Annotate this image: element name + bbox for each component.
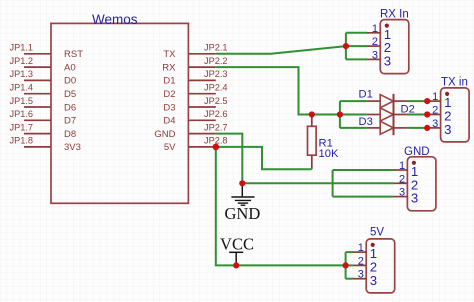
svg-text:TX: TX [163, 49, 176, 60]
svg-text:D4: D4 [163, 116, 175, 127]
svg-text:1: 1 [432, 91, 438, 103]
wire net GND horizontal to connector [242, 182, 394, 184]
ground symbol GND [225, 183, 261, 223]
junction 5V bus [343, 262, 349, 268]
svg-text:JP2.4: JP2.4 [204, 83, 228, 93]
svg-text:3: 3 [399, 187, 405, 199]
IC U1 Wemos body [51, 23, 188, 203]
svg-text:1: 1 [372, 23, 378, 35]
diode D2 [367, 104, 415, 122]
svg-text:5V: 5V [370, 227, 384, 239]
svg-text:D7: D7 [64, 116, 76, 127]
junction RX In bus [343, 43, 349, 49]
supply symbol VCC [220, 235, 254, 266]
connector JP5 GND [394, 146, 436, 211]
svg-text:D1: D1 [359, 89, 373, 101]
pin JP1.2 [10, 56, 76, 74]
svg-text:D2: D2 [163, 89, 175, 100]
svg-text:GND: GND [154, 129, 175, 140]
wire GND bus vertical [332, 170, 334, 197]
svg-text:JP2.7: JP2.7 [204, 122, 228, 132]
wire 5V bus vertical [345, 252, 347, 279]
wire net 5V: JP2.8 down to VCC row [216, 147, 346, 266]
svg-text:10K: 10K [319, 148, 339, 160]
wire D3 cathode to TX in pin3 [407, 127, 427, 129]
wire diode bus vertical [339, 101, 341, 128]
svg-text:3: 3 [384, 54, 391, 69]
wire RX In pin1 branch [346, 32, 367, 34]
wire 5V pin3 branch [346, 278, 353, 280]
svg-text:JP1.8: JP1.8 [10, 136, 34, 146]
svg-text:JP2.2: JP2.2 [204, 56, 228, 66]
svg-text:3: 3 [358, 269, 364, 281]
label Wemos [92, 12, 138, 27]
pin JP1.1 [10, 43, 84, 61]
connector JP3 RX In [367, 9, 409, 74]
wire net GND: JP2.7 to GND junction [216, 134, 243, 184]
svg-text:3: 3 [372, 49, 378, 61]
svg-text:RX: RX [162, 62, 176, 73]
svg-text:3V3: 3V3 [64, 142, 81, 153]
svg-text:1: 1 [358, 242, 364, 254]
wire D3 anode branch [340, 127, 367, 129]
svg-text:JP1.3: JP1.3 [10, 69, 34, 79]
svg-text:JP1.2: JP1.2 [10, 56, 34, 66]
svg-text:GND: GND [225, 204, 261, 223]
connector JP4 TX in [427, 77, 469, 142]
pin JP1.3 [10, 69, 77, 87]
svg-text:JP2.6: JP2.6 [204, 109, 228, 119]
svg-text:3: 3 [370, 273, 377, 288]
pin JP1.7 [10, 122, 77, 140]
diode D1 [359, 89, 407, 108]
svg-text:3: 3 [411, 191, 418, 206]
svg-text:JP2.1: JP2.1 [204, 43, 228, 53]
junction diode bus [337, 111, 343, 117]
svg-text:D5: D5 [64, 89, 76, 100]
wire D2 cathode to TX in pin2 [407, 114, 427, 116]
junction JP2.8 pin [213, 144, 220, 151]
svg-text:3: 3 [444, 122, 451, 137]
wire net TX: JP2.1 to RX In bus [216, 46, 346, 54]
svg-text:1: 1 [399, 160, 405, 172]
wire RX In bus vertical [345, 33, 347, 60]
pin JP2.5 [163, 96, 227, 114]
svg-text:JP2.3: JP2.3 [204, 69, 228, 79]
junction TX in pin2 [424, 111, 430, 117]
svg-text:2: 2 [432, 105, 438, 117]
svg-text:D3: D3 [359, 116, 373, 128]
svg-text:JP1.7: JP1.7 [10, 122, 34, 132]
svg-text:3: 3 [432, 118, 438, 130]
svg-text:Wemos: Wemos [92, 12, 138, 27]
svg-text:JP1.1: JP1.1 [10, 43, 34, 53]
pin JP2.7 [154, 122, 227, 140]
svg-text:D1: D1 [163, 76, 175, 87]
junction R1 top [309, 111, 315, 117]
wire D1 anode branch [340, 100, 367, 102]
pin JP1.4 [10, 83, 77, 101]
resistor R1 [308, 115, 339, 170]
svg-text:VCC: VCC [220, 235, 254, 254]
svg-text:D0: D0 [64, 76, 76, 87]
svg-text:TX in: TX in [441, 77, 468, 89]
pin JP2.8 [164, 136, 228, 154]
wire D1 cathode to TX in pin1 [407, 100, 427, 102]
svg-text:2: 2 [372, 36, 378, 48]
svg-text:JP1.6: JP1.6 [10, 109, 34, 119]
diode cathode bar [393, 94, 395, 135]
svg-text:A0: A0 [64, 62, 76, 73]
svg-text:JP2.5: JP2.5 [204, 96, 228, 106]
pin JP2.4 [163, 83, 227, 101]
svg-text:2: 2 [358, 255, 364, 267]
junction TX in pin1 [424, 98, 430, 104]
pin JP1.5 [10, 96, 77, 114]
wire GND pin1 branch [333, 169, 394, 171]
junction GND symbol tap [239, 180, 245, 186]
pin JP2.1 [163, 43, 227, 61]
pin JP2.6 [163, 109, 227, 127]
svg-text:D8: D8 [64, 129, 76, 140]
wire GND pin3 branch [333, 196, 394, 198]
svg-text:RX In: RX In [380, 9, 409, 21]
svg-text:2: 2 [399, 173, 405, 185]
wire net 5V: JP2.8 to R1 bottom [216, 147, 312, 169]
svg-text:JP1.4: JP1.4 [10, 83, 34, 93]
diode D3 [359, 116, 407, 134]
svg-text:RST: RST [64, 49, 83, 60]
svg-text:5V: 5V [164, 142, 176, 153]
wire 5V pin2 branch [346, 264, 353, 266]
connector JP6 5V [353, 227, 395, 293]
junction VCC tap [233, 262, 239, 268]
svg-text:D6: D6 [64, 102, 76, 113]
svg-text:D3: D3 [163, 102, 175, 113]
wire 5V pin1 branch [346, 251, 353, 253]
pin JP1.6 [10, 109, 77, 127]
pin JP1.8 [10, 136, 81, 154]
wire RX In pin2 branch [346, 45, 367, 47]
wire RX In pin3 branch [346, 58, 367, 60]
svg-text:JP1.5: JP1.5 [10, 96, 34, 106]
pin JP2.3 [163, 69, 227, 87]
wire net RX: JP2.2 to R1/diodes [216, 67, 367, 114]
junction TX in pin3 [424, 125, 430, 131]
pin JP2.2 [162, 56, 227, 74]
